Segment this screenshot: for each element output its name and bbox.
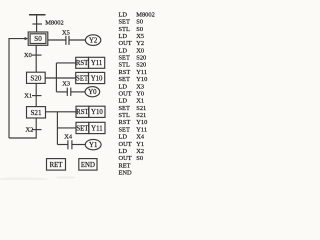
box RST 2: [76, 106, 89, 117]
svg-text:S20: S20: [136, 62, 146, 69]
wire: S0 down to S20: [35, 45, 37, 72]
svg-text:RST: RST: [76, 109, 89, 116]
wire: loop return into S0: [9, 39, 26, 138]
svg-text:Y11: Y11: [136, 69, 147, 76]
svg-text:END: END: [119, 170, 133, 177]
svg-text:SET: SET: [119, 126, 130, 133]
svg-text:S21: S21: [136, 105, 146, 112]
svg-text:Y10: Y10: [91, 75, 103, 82]
svg-text:M8002: M8002: [45, 20, 63, 27]
wire: rail2 to SET Y11: [57, 127, 76, 129]
wire: S20 to SET rung (through rail): [45, 77, 75, 79]
svg-text:END: END: [81, 162, 95, 169]
svg-text:S21: S21: [136, 112, 146, 119]
svg-text:Y2: Y2: [136, 40, 144, 47]
svg-text:SET: SET: [76, 125, 89, 132]
svg-text:Y0: Y0: [88, 89, 97, 96]
svg-text:SET: SET: [119, 19, 130, 26]
branch rail 1: [55, 63, 57, 92]
svg-text:LD: LD: [119, 11, 128, 18]
svg-text:X1: X1: [136, 98, 144, 105]
svg-text:X4: X4: [64, 134, 73, 141]
svg-text:X2: X2: [26, 127, 34, 134]
svg-text:Y11: Y11: [136, 126, 147, 133]
svg-text:RET: RET: [119, 162, 131, 169]
svg-text:Y10: Y10: [136, 76, 147, 83]
arrowhead into S0: [25, 37, 29, 40]
box Y11 2: [89, 122, 105, 133]
contact X4: [67, 140, 69, 149]
svg-text:Y11: Y11: [91, 60, 102, 67]
svg-text:RST: RST: [119, 69, 131, 76]
svg-text:LD: LD: [119, 98, 128, 105]
box Y10: [89, 72, 105, 83]
coil Y1 ellipse: [85, 139, 101, 149]
svg-text:M8002: M8002: [136, 11, 154, 18]
contact X5: [65, 36, 67, 45]
transition X0 tick: [32, 54, 42, 56]
svg-text:RST: RST: [76, 60, 89, 67]
start rail bar: [29, 14, 46, 16]
svg-text:SET: SET: [119, 105, 130, 112]
wire: rail to X3 contact: [56, 91, 67, 93]
svg-text:OUT: OUT: [119, 155, 132, 162]
wire: bar down to S0: [36, 15, 38, 32]
coil Y2 ellipse: [85, 35, 100, 46]
svg-text:S0: S0: [136, 26, 143, 33]
svg-text:X5: X5: [62, 29, 70, 36]
step S21 box: [27, 107, 46, 118]
svg-text:LD: LD: [119, 134, 128, 141]
svg-text:SET: SET: [76, 75, 89, 82]
svg-text:Y10: Y10: [91, 109, 103, 116]
svg-text:S20: S20: [136, 55, 146, 62]
svg-text:LD: LD: [119, 83, 128, 90]
svg-text:STL: STL: [119, 112, 130, 119]
box SET 2: [76, 122, 89, 133]
box SET: [76, 72, 89, 83]
svg-text:OUT: OUT: [119, 91, 132, 98]
svg-text:Y11: Y11: [91, 125, 102, 132]
wire: X3 to Y0 coil: [71, 91, 85, 93]
svg-text:X5: X5: [136, 33, 144, 40]
wire: S20 down to S21: [35, 83, 37, 106]
svg-text:S0: S0: [136, 19, 143, 26]
svg-text:LD: LD: [119, 47, 128, 54]
svg-text:X0: X0: [136, 47, 144, 54]
svg-text:Y10: Y10: [136, 119, 147, 126]
step S20 box: [27, 72, 46, 83]
wire: S21 down through X2 and loop-back: [9, 118, 36, 138]
wire: S0 to X5 contact: [48, 39, 66, 41]
svg-text:STL: STL: [119, 26, 130, 33]
svg-text:X2: X2: [136, 148, 144, 155]
svg-text:X1: X1: [24, 93, 32, 100]
svg-text:LD: LD: [119, 148, 128, 155]
wire: S21 to RST rung (through rail 2): [46, 111, 77, 113]
instruction list: [119, 11, 155, 176]
box Y10 2: [89, 106, 105, 117]
svg-text:OUT: OUT: [119, 141, 132, 148]
box RET: [47, 159, 66, 171]
svg-text:Y0: Y0: [136, 91, 144, 98]
scan artifacts: [0, 176, 76, 180]
svg-text:S0: S0: [34, 35, 42, 43]
svg-text:X3: X3: [62, 81, 70, 88]
transition X1 tick: [32, 95, 42, 97]
svg-text:S21: S21: [30, 109, 41, 117]
wire: X4 to Y1 coil: [72, 144, 85, 146]
svg-text:RET: RET: [50, 162, 64, 169]
box Y11: [89, 57, 105, 68]
step S0 inner box: [30, 34, 46, 44]
svg-text:LD: LD: [119, 33, 128, 40]
coil Y0 ellipse: [85, 87, 100, 97]
svg-text:OUT: OUT: [119, 40, 132, 47]
transition X2 tick: [32, 129, 42, 131]
wire: rail to RST Y11: [56, 62, 75, 64]
box RST: [76, 57, 89, 68]
transition M8002 tick: [32, 23, 42, 25]
svg-text:X0: X0: [24, 52, 32, 59]
svg-text:Y1: Y1: [89, 142, 97, 149]
box END: [79, 159, 97, 171]
svg-text:RST: RST: [119, 119, 131, 126]
svg-text:SET: SET: [119, 76, 130, 83]
svg-text:Y2: Y2: [89, 38, 98, 45]
svg-text:S20: S20: [30, 75, 41, 83]
contact X3: [66, 88, 68, 96]
svg-text:X4: X4: [136, 134, 145, 141]
svg-text:Y1: Y1: [136, 141, 144, 148]
wire: rail2 to X4 contact: [57, 144, 67, 146]
svg-text:S0: S0: [136, 155, 143, 162]
wire: X5 to Y2 coil: [69, 39, 85, 41]
branch rail 2: [56, 112, 58, 145]
svg-text:SET: SET: [119, 55, 130, 62]
step S0 outer box (initial step): [28, 32, 48, 45]
svg-text:STL: STL: [119, 62, 130, 69]
svg-text:X3: X3: [136, 83, 144, 90]
